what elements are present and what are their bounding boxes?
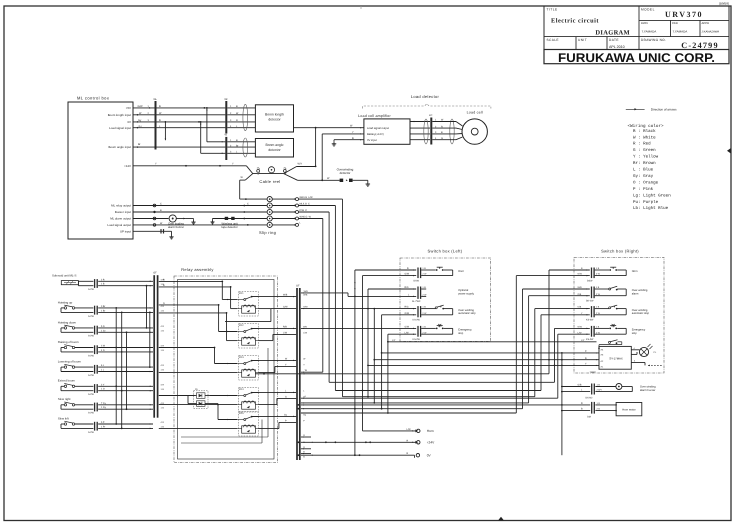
connector bus left pin labels [161, 278, 165, 428]
svg-text:R/B: R/B [283, 326, 287, 329]
svg-text:1 Gy: 1 Gy [101, 406, 107, 409]
svg-text:Relay assembly: Relay assembly [181, 267, 213, 272]
wire harness row 7 [301, 412, 516, 413]
title block label CKD [672, 21, 687, 33]
svg-text:G: G [441, 137, 443, 140]
svg-text:W/B: W/B [304, 290, 309, 293]
wire bus row to SBL optional [301, 290, 416, 297]
svg-text:detector: detector [268, 148, 281, 152]
frame centering mark right [727, 148, 731, 154]
wire relay R1 coil out [225, 309, 271, 322]
solenoid circuit Solenoid unit ML-S [52, 274, 153, 291]
title block label SCALE [547, 38, 559, 42]
svg-text:3 Br: 3 Br [101, 305, 105, 308]
wire harness row 3 [335, 390, 541, 392]
svg-text:J.KANAZAWA: J.KANAZAWA [702, 30, 720, 34]
svg-text:ML control box: ML control box [77, 96, 109, 101]
title block label DATE [609, 38, 625, 49]
wire horn motor feeds [561, 402, 590, 412]
shield oval boom angle cable [243, 138, 248, 157]
over loading alarm buzzer [169, 215, 196, 224]
svg-text:1 B: 1 B [161, 388, 165, 391]
svg-text:Load signal input: Load signal input [109, 126, 131, 130]
connector bus CN labels [303, 294, 308, 459]
switch SBR over winding alarm [586, 286, 648, 302]
svg-text:RY3: RY3 [239, 356, 244, 359]
overwinding detector switch [340, 179, 368, 182]
connector CN boom angle [225, 134, 228, 160]
svg-text:RY4: RY4 [239, 388, 244, 391]
switch SBL optional power supply [412, 286, 475, 303]
svg-text:WH/LG W: WH/LG W [300, 215, 312, 218]
svg-text:Br: Brown: Br: Brown [631, 161, 657, 166]
svg-text:alarm: alarm [632, 293, 639, 296]
svg-text:4 G: 4 G [101, 349, 105, 352]
wire relay R4 output [252, 390, 297, 394]
switch SBR horn [587, 267, 638, 282]
svg-text:4 R: 4 R [161, 421, 165, 424]
svg-text:Horn motor: Horn motor [622, 408, 636, 411]
svg-text:2 Y: 2 Y [101, 383, 105, 386]
switch box right label [601, 249, 639, 254]
svg-text:KS-2W: KS-2W [413, 338, 421, 341]
over winding alarm buzzer label [640, 386, 656, 392]
wire 0V short branch [165, 121, 167, 140]
svg-text:RY1: RY1 [239, 292, 244, 295]
ML control box [68, 102, 133, 239]
svg-text:T.YAMADA: T.YAMADA [642, 30, 657, 34]
svg-text:4 R: 4 R [161, 305, 165, 308]
wire bus bottom junction dots [298, 404, 300, 456]
svg-text:O : Orange: O : Orange [631, 180, 659, 185]
load cell [462, 119, 487, 144]
load detector bracket [363, 104, 491, 109]
wire harness row L [301, 395, 558, 399]
wire boom angle input [133, 146, 225, 148]
svg-text:Br: Br [138, 143, 141, 146]
svg-text:RY5: RY5 [239, 412, 244, 415]
svg-text:C-24799: C-24799 [681, 41, 719, 50]
wires connector to boom angle detector [227, 139, 255, 154]
wire 0V terminal row [301, 452, 415, 458]
wire relay feed R5 contact [217, 404, 237, 421]
svg-text:GL: GL [154, 98, 158, 101]
svg-text:DSW: DSW [414, 279, 420, 282]
switch box right enclosure [574, 257, 664, 373]
svg-text:W/B: W/B [578, 286, 583, 289]
svg-text:1 B: 1 B [161, 310, 165, 313]
wiring color legend [628, 123, 672, 211]
svg-text:+5V: +5V [126, 106, 131, 110]
wire relay R3 output [252, 358, 297, 362]
wire solenoid field vertical 1 [115, 307, 117, 425]
wires amplifier to load cell connector [410, 121, 430, 140]
svg-text:ML relay output: ML relay output [111, 204, 131, 208]
shield oval boom length cable [243, 104, 248, 130]
TR module SY-17MAX [590, 346, 632, 373]
wire harness row W short [301, 369, 323, 373]
direction of arrows legend [626, 107, 677, 111]
wire +12V from ML control box [133, 162, 246, 166]
svg-text:KS-2W: KS-2W [586, 338, 594, 341]
title text Electric circuit [551, 18, 630, 37]
svg-text:Slew right: Slew right [58, 397, 71, 401]
shield oval load cell side [450, 119, 454, 144]
svg-text:1 B: 1 B [101, 283, 105, 286]
svg-text:KS-2W: KS-2W [586, 319, 594, 322]
svg-text:Buzzer input: Buzzer input [115, 210, 131, 214]
svg-text:R/G: R/G [405, 286, 409, 289]
cable reel body [240, 166, 298, 181]
svg-text:C: C [247, 203, 249, 206]
wire battery feed from cable reel [321, 131, 364, 181]
svg-text:R: R [441, 125, 443, 128]
wire SBR feed arrows [587, 269, 589, 335]
frame centering mark bottom [498, 517, 504, 521]
connector at load cell [429, 114, 432, 144]
svg-text:Direction of arrows: Direction of arrows [651, 107, 677, 111]
svg-text:S-2W: S-2W [88, 288, 95, 291]
svg-text:DWN: DWN [641, 21, 648, 25]
wire SBL horn feed vertical [354, 270, 416, 456]
svg-text:<Wiring color>: <Wiring color> [628, 123, 665, 129]
switch SBR emergency stop [586, 324, 646, 341]
svg-text:5 G: 5 G [101, 325, 105, 328]
wire slip row1 vertical [299, 199, 343, 397]
solenoid circuit Slew left [58, 416, 153, 433]
svg-text:0V: 0V [127, 120, 131, 124]
wire assembly routing loop 2 [181, 420, 262, 444]
slip ring wire labels [300, 196, 314, 225]
wire harness row 4 [343, 396, 535, 398]
over loading alarm buzzer label [168, 222, 184, 229]
wire harness nest vertical 6 [541, 315, 590, 391]
svg-text:G/B: G/B [578, 384, 582, 387]
svg-text:Raising of boom: Raising of boom [58, 340, 79, 344]
relay RY3 [237, 356, 259, 381]
wire harness nest vertical 2 [516, 276, 590, 413]
wire solenoid field vertical 3 [126, 331, 128, 410]
solenoid circuit Slew right [58, 397, 153, 414]
title block label DWN [641, 21, 656, 33]
svg-text:4 R: 4 R [161, 383, 165, 386]
wire harness nest vertical 1 [549, 270, 590, 374]
wire load signal branch down [315, 128, 317, 167]
slip ring label [259, 230, 276, 235]
svg-text:+12V: +12V [124, 164, 131, 168]
svg-text:detector: detector [340, 171, 351, 175]
svg-text:Horn: Horn [632, 270, 638, 273]
svg-text:Electric circuit: Electric circuit [551, 18, 599, 25]
svg-text:UNIT: UNIT [578, 38, 587, 42]
svg-text:tape detector: tape detector [221, 225, 237, 229]
svg-text:DIAGRAM: DIAGRAM [595, 30, 630, 37]
wire relay R5 coil out [259, 420, 297, 429]
svg-text:W/B: W/B [303, 294, 308, 297]
slip ring contacts [267, 197, 272, 228]
svg-text:automatic stop: automatic stop [458, 312, 476, 315]
wire SBR bus bottom hook [0, 0, 1, 1]
wireless unit tape detector label [221, 222, 237, 229]
wire harness nest vertical 7 [555, 328, 590, 382]
svg-text:Boom length input: Boom length input [108, 113, 131, 117]
wire harness nest vertical 8 [558, 334, 590, 398]
wire relay R4 coil out [259, 396, 297, 405]
svg-text:Gy: Gray: Gy: Gray [631, 174, 654, 179]
svg-text:Solenoid unit ML-S: Solenoid unit ML-S [52, 274, 76, 278]
ML control box label [77, 96, 109, 101]
svg-text:Cable reel: Cable reel [259, 179, 280, 184]
wire SBR feed labels [578, 267, 584, 334]
terminal +24V [415, 441, 435, 445]
connector buzzer [586, 384, 603, 400]
wire relay feed R5 coil [159, 428, 237, 430]
svg-text:UP input: UP input [120, 229, 131, 233]
company name box [544, 50, 729, 64]
svg-text:FURUKAWA UNIC CORP.: FURUKAWA UNIC CORP. [558, 51, 715, 65]
svg-text:TITLE: TITLE [547, 8, 558, 12]
cable reel slip contact right [283, 168, 286, 174]
load cell label [467, 111, 483, 115]
svg-text:C: C [160, 203, 162, 206]
svg-text:W/Y: W/Y [298, 163, 303, 166]
svg-text:1 B: 1 B [161, 329, 165, 332]
wire relay R3 coil out [259, 364, 297, 373]
wire load signal output row [133, 222, 267, 226]
title block label DRAWING NO [641, 38, 666, 42]
slip ring output clips [272, 198, 298, 227]
svg-text:Load detector: Load detector [411, 94, 440, 99]
wire relay feed R1 coil [159, 284, 237, 309]
wire relay feed R3 contact [159, 347, 237, 365]
wire relay R1 coil to bus [271, 306, 296, 309]
svg-text:DSW: DSW [587, 279, 593, 282]
svg-text:GF: GF [225, 98, 229, 101]
svg-text:Horn: Horn [427, 429, 434, 433]
svg-text:1 B: 1 B [161, 426, 165, 429]
svg-text:T.YAMADA: T.YAMADA [673, 30, 688, 34]
svg-text:W/B: W/B [283, 294, 288, 297]
svg-text:APL 2010: APL 2010 [609, 45, 625, 49]
svg-text:automatic stop: automatic stop [632, 312, 650, 315]
wire TR module option output [631, 360, 663, 367]
wire +5V and boom length signal bundle [133, 107, 225, 129]
svg-text:S-2W: S-2W [88, 393, 95, 396]
svg-text:APPD: APPD [702, 21, 710, 25]
svg-text:S-2W: S-2W [88, 431, 95, 434]
sheet number note [719, 1, 729, 5]
wire module row A2 from harness [373, 309, 375, 404]
horn motor [595, 403, 641, 416]
solenoid circuit Extend boom [58, 379, 153, 396]
wire bus row to SBL ow stop [301, 308, 416, 310]
svg-text:1 Br: 1 Br [101, 309, 105, 312]
svg-text:G: G [163, 302, 165, 305]
solenoid circuit Raising of boom [58, 340, 153, 357]
node 0V branch [198, 121, 202, 125]
relay assembly inner routing box [178, 280, 275, 460]
wire solenoid branch a [146, 285, 148, 329]
svg-text:Battery(+12V): Battery(+12V) [367, 133, 384, 136]
wire toggle feed long row [301, 404, 563, 406]
svg-text:G/B: G/B [578, 293, 582, 296]
wire harness row 6 [301, 408, 523, 410]
wire solenoid field vertical 2 [121, 312, 123, 430]
wire buzzer feeds [561, 384, 590, 393]
relay RY4 [237, 388, 259, 413]
svg-text:S-2W: S-2W [88, 335, 95, 338]
svg-text:Load signal output: Load signal output [367, 127, 389, 130]
svg-text:stop: stop [632, 332, 638, 335]
svg-text:MODEL: MODEL [641, 8, 655, 12]
switch SBL horn [414, 267, 465, 282]
load cell amplifier label [358, 114, 391, 118]
wire toggle feed vertical [388, 339, 597, 342]
wire ML relay output row [133, 203, 267, 207]
relay RY2 [237, 324, 259, 349]
wire solenoid branch b [149, 312, 151, 369]
ML control box pin labels [107, 106, 131, 233]
wire slip row4 vertical [299, 219, 323, 373]
title block grid [544, 6, 729, 50]
wire 0V to boom angle connector [201, 122, 226, 154]
svg-text:1 Gr: 1 Gr [101, 329, 106, 332]
wire relay feed R2 coil [159, 312, 237, 341]
boom angle detector [255, 139, 293, 158]
wire relay feed R4 coil [159, 404, 237, 406]
svg-text:R/G: R/G [405, 306, 409, 309]
svg-text:Lowering of boom: Lowering of boom [58, 360, 82, 364]
svg-text:Load signal output: Load signal output [107, 223, 131, 227]
over winding alarm buzzer [595, 384, 632, 392]
svg-text:Switch box (Right): Switch box (Right) [601, 249, 639, 254]
wire ML alarm row segment 1 [133, 217, 169, 220]
svg-text:ML/LG C: ML/LG C [300, 202, 311, 205]
wire cable reel to slip ring [240, 180, 267, 200]
ground at amplifier 0V [332, 140, 337, 146]
relay RY5 [237, 412, 259, 437]
company name FURUKAWA UNIC CORP [558, 51, 715, 65]
svg-text:stop: stop [458, 332, 464, 335]
wire TR module to pilot lamp [631, 347, 639, 355]
wire harness nest vertical 5 [535, 309, 590, 397]
svg-text:Load cell amplifier: Load cell amplifier [358, 114, 391, 118]
svg-text:Extend boom: Extend boom [58, 379, 76, 383]
svg-text:(B9/B9): (B9/B9) [719, 1, 729, 5]
wire ML alarm row segment 2 [210, 218, 266, 224]
wire SBL ow stop low feed [381, 315, 417, 410]
svg-text:G: G [285, 396, 287, 399]
connector bus left [153, 272, 158, 418]
svg-text:Boom angle input: Boom angle input [109, 145, 132, 149]
cable reel label [259, 179, 280, 184]
wire harness nest vertical 4 [529, 296, 590, 403]
wire harness row 8 long [0, 0, 1, 1]
svg-text:Slew left: Slew left [58, 416, 69, 420]
svg-text:5 P: 5 P [101, 421, 105, 424]
svg-text:RY2: RY2 [239, 324, 244, 327]
svg-text:SL-7WC: SL-7WC [412, 300, 421, 303]
svg-text:L/Y: L/Y [581, 339, 585, 342]
svg-text:detector: detector [268, 118, 281, 122]
overwinding detector label [337, 167, 354, 175]
svg-text:Boom length: Boom length [265, 113, 284, 117]
wire bus row to SBL emergency [301, 328, 416, 329]
svg-text:KS-2W: KS-2W [413, 319, 421, 322]
svg-text:S-2W: S-2W [88, 354, 95, 357]
svg-text:4 R: 4 R [161, 325, 165, 328]
wire cable reel W/Y output [297, 163, 317, 168]
model number URV370 [665, 10, 703, 19]
svg-text:ML alarm output: ML alarm output [110, 217, 131, 221]
svg-text:URV370: URV370 [665, 10, 703, 19]
drawing number C-24799 [681, 41, 719, 50]
svg-text:CKD: CKD [672, 21, 678, 25]
switch SBL emergency stop [413, 324, 473, 341]
wire +24V terminal row [301, 439, 416, 443]
svg-text:G : Green: G : Green [631, 148, 657, 153]
cable reel drum [268, 167, 274, 173]
svg-text:GF: GF [153, 272, 157, 275]
wire SBL horn low feed [363, 276, 417, 431]
wire relay R1 output [252, 294, 297, 298]
wire SBL emergency low feed [387, 334, 416, 414]
TR module toggle switch [598, 340, 622, 349]
svg-text:DM: DM [587, 415, 591, 418]
svg-text:1 B: 1 B [161, 369, 165, 372]
wireless unit tape detector switch [225, 217, 235, 220]
load cell amplifier [364, 119, 410, 144]
wire SBR bus vertical [561, 353, 563, 455]
wire +5V to boom angle connector [207, 108, 226, 143]
svg-text:1 B: 1 B [161, 349, 165, 352]
svg-text:Load cell: Load cell [467, 111, 483, 115]
wire SBL ow stop feed [367, 289, 416, 397]
wire harness row 1 [255, 373, 549, 375]
wire relay feed R3 coil [159, 372, 237, 374]
svg-text:S-2W: S-2W [88, 374, 95, 377]
svg-text:LC: LC [429, 114, 432, 117]
wires connector to boom length detector [227, 105, 255, 128]
connector horn motor [587, 402, 600, 419]
ground at overwinding detector [366, 180, 371, 186]
relay assembly label [181, 267, 213, 272]
diode pack 1b [194, 388, 209, 408]
wire slip row3 vertical [299, 212, 330, 382]
wire relay feed R2 contact [159, 302, 237, 332]
relay RY1 [237, 292, 259, 317]
title block label UNIT [578, 38, 587, 42]
svg-text:0V input: 0V input [367, 139, 377, 142]
solenoid circuit Lowering of boom [58, 360, 153, 377]
wire harness row 5 [301, 402, 529, 403]
wire diode pack feeds [188, 396, 218, 405]
svg-text:Slip ring: Slip ring [259, 230, 276, 235]
svg-text:Boom angle: Boom angle [265, 143, 283, 147]
svg-text:L/Y: L/Y [392, 339, 396, 342]
svg-text:1 O: 1 O [101, 388, 105, 391]
load detector label [411, 94, 440, 99]
wire assembly routing loop 1 [181, 348, 268, 437]
wire SBL feed arrows [413, 269, 415, 335]
svg-text:GF: GF [296, 285, 300, 288]
wire 0V amplifier to ground [334, 137, 364, 141]
cable reel slip contact left [257, 168, 260, 174]
solenoid circuit Hoisting down [58, 320, 153, 337]
svg-text:1 B: 1 B [161, 406, 165, 409]
svg-text:4 R: 4 R [161, 364, 165, 367]
terminal 0V [416, 454, 431, 458]
